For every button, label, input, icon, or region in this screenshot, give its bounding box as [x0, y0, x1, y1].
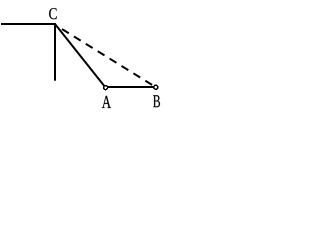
label B [153, 95, 160, 107]
wire: solid segment C to A [55, 24, 105, 87]
node A: open circle [104, 86, 108, 90]
label C [49, 8, 57, 19]
label A [102, 96, 111, 108]
wire: vertical segment down from C [54, 23, 56, 81]
wire: dashed segment C to B [62, 29, 156, 87]
wire: horizontal ray left of C [1, 23, 56, 25]
node B: open circle [154, 85, 158, 89]
wire: segment A to B [106, 86, 156, 88]
